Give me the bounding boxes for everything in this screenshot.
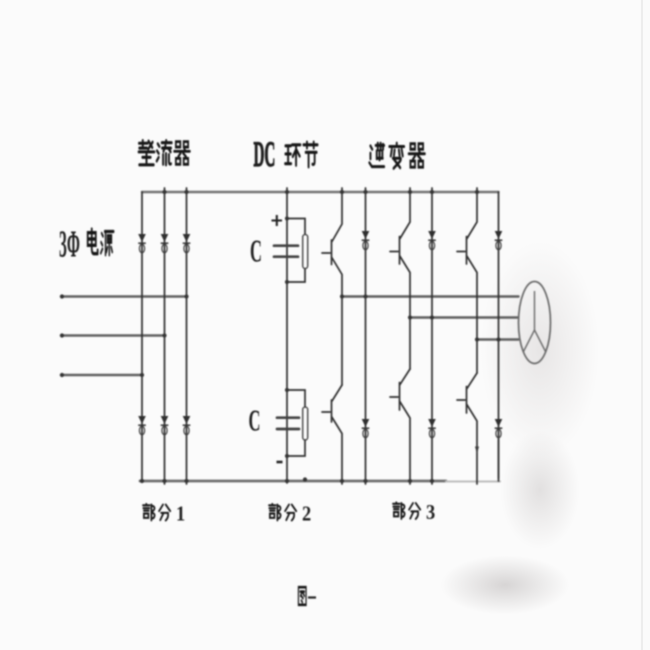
- node dots top bus: [162, 190, 166, 194]
- label DC环节 (DC link heading): [254, 133, 318, 173]
- smudge blob around motor: [480, 240, 600, 460]
- svg-text:1: 1: [176, 504, 185, 526]
- wire inverter output U: [342, 295, 519, 297]
- wire inverter output W: [477, 338, 519, 340]
- wire bottom DC bus faint right part: [446, 481, 500, 483]
- wire inverter output V: [410, 316, 518, 318]
- svg-text:3Φ: 3Φ: [59, 224, 80, 266]
- label 3Φ电源 (3-phase source): [59, 224, 114, 266]
- smudge blob bottom right: [440, 555, 570, 615]
- capacitor C2 plates: [277, 418, 299, 429]
- wire rectifier leg 1: [141, 192, 143, 481]
- transistor Q3 (leg3 upper) with leg wire: [457, 188, 477, 373]
- diode D12 (leg3 bottom freewheel): [495, 419, 503, 438]
- diode D2: [161, 234, 169, 253]
- label 图- (figure caption): [298, 587, 306, 605]
- svg-text:C: C: [249, 404, 261, 438]
- diode D6: [183, 416, 191, 435]
- wire rectifier leg 2: [164, 188, 166, 484]
- diode D9 (leg3 top freewheel): [495, 231, 503, 250]
- smudge blob below motor: [500, 430, 580, 550]
- node dots phase line ends: [60, 294, 64, 298]
- transistor Q2 (leg2 upper) with leg wire: [390, 188, 410, 369]
- transistor Q1 (leg1 upper) with leg wire: [322, 188, 342, 385]
- plus polarity mark C1: [272, 215, 283, 226]
- svg-text:DC: DC: [254, 133, 276, 173]
- node dots inverter outputs: [340, 294, 344, 298]
- label 部分2 (section 2): [269, 504, 311, 526]
- wire top DC bus: [142, 191, 499, 193]
- wire phase input T: [61, 374, 142, 377]
- wire phase input R: [61, 295, 187, 298]
- wire DC-link rail: [286, 188, 288, 483]
- label 整流器 (rectifier heading): [139, 141, 190, 165]
- diode D1: [138, 234, 146, 253]
- transistor Q4 (leg1 lower) with leg wire: [322, 385, 342, 484]
- node dots DC link: [285, 216, 289, 220]
- transistor Q5 (leg2 lower) with leg wire: [390, 369, 410, 484]
- label 逆变器 (inverter heading): [369, 143, 424, 168]
- diode D11 (leg2 bottom freewheel): [428, 419, 436, 438]
- freewheel diode rail leg1: [365, 188, 367, 484]
- wire leg3 rail lower dark segment: [498, 440, 500, 478]
- wire phase input S: [61, 334, 165, 337]
- capacitor C2 bleeder branch: [287, 390, 305, 456]
- freewheel diode rail leg3 (right bus corner): [498, 192, 500, 481]
- wire rectifier leg 3: [186, 188, 188, 484]
- resistor R2 (bleeder, oval body): [303, 407, 308, 440]
- freewheel diode rail leg2: [431, 188, 433, 484]
- svg-text:3: 3: [426, 502, 435, 524]
- label 图- dash: [308, 596, 316, 598]
- diode D5: [161, 416, 169, 435]
- transistor Q6 (leg3 lower) with leg wire: [457, 373, 477, 484]
- diode D10 (leg1 bottom freewheel): [362, 419, 370, 438]
- diode D7 (leg1 top freewheel): [362, 231, 370, 250]
- emitter arrow Q6: [475, 447, 479, 455]
- diode D8 (leg2 top freewheel): [428, 231, 436, 250]
- svg-text:2: 2: [302, 504, 311, 526]
- resistor R1 (bleeder, oval body): [303, 235, 308, 269]
- label 部分3 (section 3): [393, 502, 435, 524]
- motor M: [519, 282, 551, 364]
- diode D3: [183, 234, 191, 253]
- diode D4: [138, 416, 146, 435]
- node dots bottom bus: [140, 479, 144, 483]
- minus polarity mark C2: [277, 461, 283, 464]
- paper smudge right edge: [641, 0, 643, 650]
- label 部分1 (section 1): [143, 504, 185, 526]
- capacitor C1 bleeder branch: [287, 219, 305, 283]
- capacitor C1 plates: [274, 246, 298, 257]
- wire bottom DC bus: [140, 480, 446, 483]
- svg-text:C: C: [250, 234, 262, 269]
